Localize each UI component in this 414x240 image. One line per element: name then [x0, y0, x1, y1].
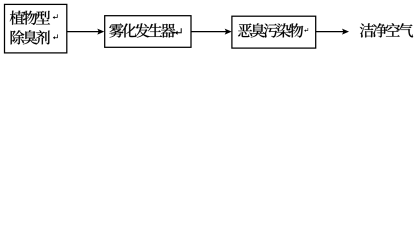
- text 雾化发生器 (box B2): [109, 23, 175, 37]
- text 植物型 (box B1 line 1): [10, 11, 50, 25]
- background: [0, 0, 414, 60]
- box B2 (雾化发生器): [105, 16, 191, 48]
- text 洁净空气 (output label): [360, 23, 413, 37]
- box B3 (恶臭污染物): [232, 16, 316, 48]
- soft-return mark after 型: [53, 14, 58, 19]
- arrow A1 (B1 to B2): [67, 29, 104, 35]
- text 恶臭污染物 (box B3): [238, 23, 303, 37]
- arrow A3 (B3 to output): [316, 29, 349, 35]
- soft-return mark after 剂: [53, 34, 58, 39]
- soft-return mark after 器: [175, 28, 181, 35]
- text 除臭剂 (box B1 line 2): [11, 30, 50, 44]
- arrow A2 (B2 to B3): [191, 29, 232, 35]
- soft-return mark after 物: [304, 28, 308, 32]
- box B1 (植物型除臭剂): [5, 4, 67, 53]
